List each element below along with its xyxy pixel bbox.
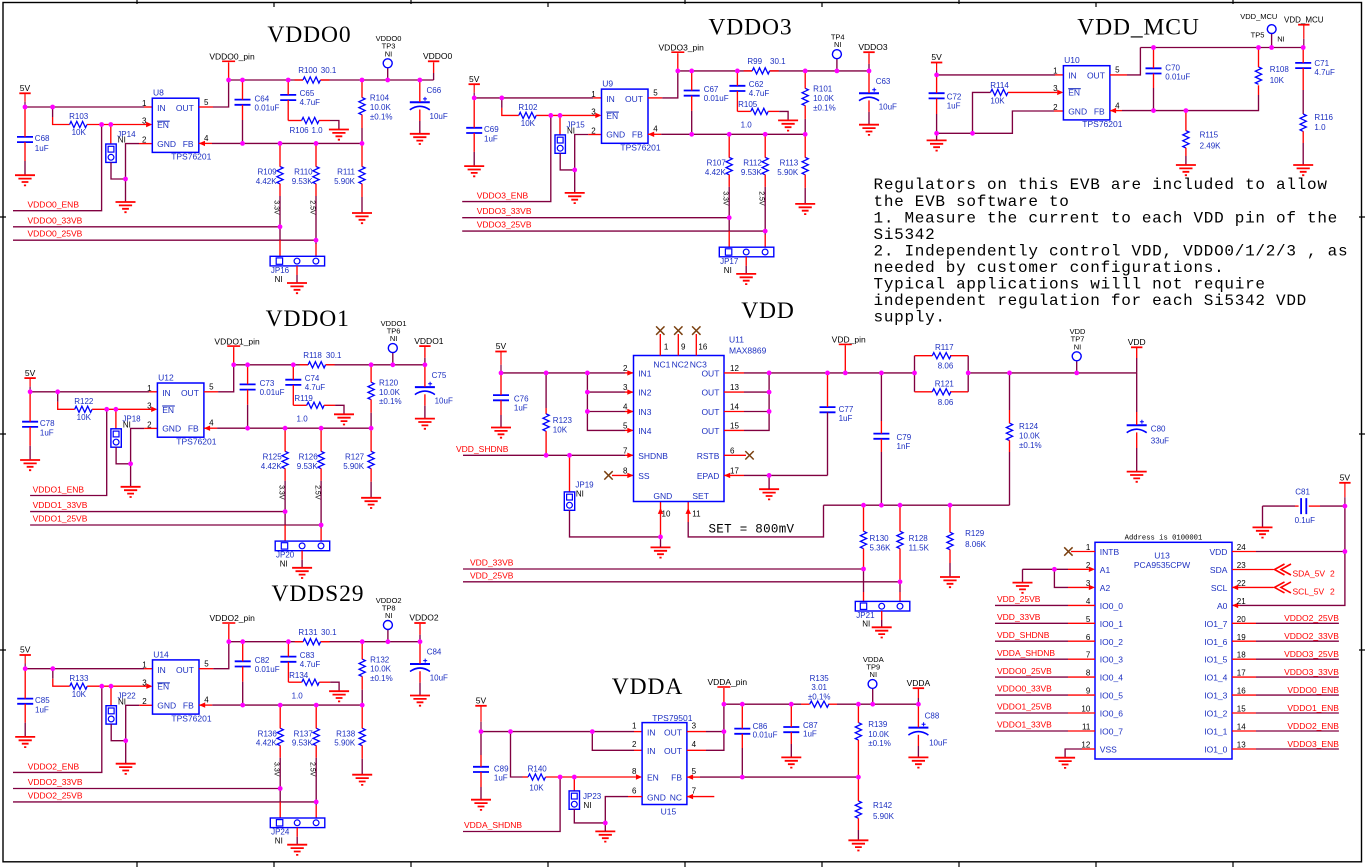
net label VDDO3_33VB — [477, 206, 532, 216]
wire C76 to ground — [500, 415, 502, 427]
junction — [314, 238, 319, 243]
svg-text:NI: NI — [834, 40, 842, 49]
resistor R136 4.42K — [256, 728, 283, 748]
wire 5V to IN pin — [30, 391, 149, 393]
regulator U12 TPS76201 — [147, 372, 217, 446]
capacitor C76 1uF — [493, 395, 529, 413]
wire VDD net — [1256, 551, 1345, 553]
capacitor C74 4.7uF — [285, 374, 325, 392]
svg-text:C66: C66 — [427, 86, 442, 95]
wire jumper mid to ground — [296, 837, 298, 845]
svg-text:2. Independently control VDD,: 2. Independently control VDD, VDDO0/1/2/… — [874, 242, 1349, 260]
svg-text:C85: C85 — [35, 696, 50, 705]
resistor R137 9.53K — [292, 728, 319, 748]
svg-text:9.53K: 9.53K — [292, 177, 314, 186]
wire C88 bottom red — [917, 735, 919, 746]
wire parallel right post — [967, 356, 969, 392]
svg-text:4.7uF: 4.7uF — [305, 383, 326, 392]
wire TP9 stub — [872, 688, 874, 704]
resistor R107 4.42K — [705, 157, 732, 177]
wire C84 to ground — [419, 683, 421, 696]
wire flag red stem — [433, 62, 435, 73]
wire C87 bottom red — [790, 732, 792, 744]
resistor R120 10.0K — [368, 378, 402, 406]
junction — [423, 362, 428, 367]
wire GND pin stub — [144, 427, 157, 429]
wire OUT12 stub — [724, 372, 744, 374]
wire rail right of parallel pair — [968, 372, 1136, 374]
wire VDDA rail left — [724, 703, 801, 705]
jumper JP17 NI — [719, 247, 774, 275]
wire test point stub — [387, 68, 389, 80]
wire VDDA rail right — [837, 703, 918, 705]
net label VDD_25VB — [997, 594, 1041, 604]
svg-text:22: 22 — [1237, 579, 1246, 588]
svg-text:VDD_pin: VDD_pin — [832, 335, 866, 345]
power flag VDD_MCU — [1284, 15, 1324, 47]
resistor R115 2.49K — [1183, 130, 1221, 150]
svg-text:VDDO3: VDDO3 — [708, 15, 792, 41]
svg-text:0.01uF: 0.01uF — [1165, 72, 1190, 81]
svg-text:TPS76201: TPS76201 — [171, 152, 211, 162]
wire C72 to bottom rail — [936, 114, 938, 133]
wire resistor right lead to EN — [87, 685, 147, 687]
wire A1 net — [1023, 568, 1069, 570]
junction — [879, 503, 884, 508]
junction — [499, 96, 504, 101]
wire R142 top lead — [857, 777, 859, 801]
section title VDDS29 — [272, 581, 365, 607]
svg-text:U11: U11 — [729, 335, 744, 345]
wire rb jumper red — [320, 529, 322, 541]
pin arrow FB — [1110, 108, 1116, 113]
wire C83 top lead — [287, 642, 289, 657]
svg-text:R110: R110 — [294, 168, 313, 177]
junction — [1074, 371, 1079, 376]
wire EPAD gnd stem — [768, 475, 770, 489]
wire SS stub — [612, 474, 634, 476]
wire C85 bottom lead — [24, 704, 26, 723]
svg-text:R101: R101 — [813, 85, 833, 94]
svg-text:3: 3 — [142, 678, 147, 687]
wire output rail left — [229, 641, 303, 643]
svg-text:OUT: OUT — [176, 665, 194, 675]
power flag 5V — [931, 52, 942, 75]
svg-text:IN1: IN1 — [638, 368, 652, 378]
wire jumper mid to ground — [301, 560, 303, 568]
pin arrow EN — [151, 407, 157, 412]
wire VDD_33VB net — [995, 622, 1068, 624]
svg-text:10uF: 10uF — [430, 112, 448, 121]
svg-text:1: 1 — [142, 99, 147, 108]
svg-text:IO1_1: IO1_1 — [1204, 727, 1227, 737]
svg-text:IO1_7: IO1_7 — [1204, 619, 1227, 629]
capacitor C62 4.7uF — [729, 80, 769, 98]
svg-text:C76: C76 — [514, 395, 529, 404]
svg-text:9.53K: 9.53K — [297, 462, 319, 471]
wire R124 top red — [1009, 410, 1011, 423]
label 3.3V — [273, 762, 280, 777]
wire FB stub — [648, 133, 661, 135]
svg-text:4: 4 — [1086, 597, 1091, 606]
wire rs right lead — [319, 681, 330, 683]
wire JP21 mid red — [881, 611, 883, 620]
resistor R114 10K — [990, 81, 1009, 105]
wire C80 top red — [1136, 412, 1138, 425]
svg-text:3.3V: 3.3V — [722, 191, 729, 206]
wire rb bottom red — [315, 184, 317, 196]
wire R101 bottom red — [804, 106, 806, 119]
svg-text:1.0: 1.0 — [297, 414, 309, 423]
junction — [278, 703, 283, 708]
pin arrow FB — [648, 132, 654, 137]
svg-text:1uF: 1uF — [803, 729, 817, 738]
resistor R103 10K — [69, 112, 89, 137]
wire C66 top lead — [419, 80, 421, 102]
svg-text:R126: R126 — [299, 452, 319, 461]
svg-text:10.0K: 10.0K — [1019, 431, 1041, 440]
svg-text:IO0_3: IO0_3 — [1100, 655, 1123, 665]
capacitor C77 1uF — [820, 405, 854, 423]
wire R115 top lead — [1185, 111, 1187, 131]
wire rc to ground — [361, 759, 363, 775]
wire resistor left lead — [502, 108, 519, 116]
junction — [240, 639, 245, 644]
wire ra to jumper — [279, 196, 281, 240]
wire flag stem — [424, 358, 426, 365]
junction — [803, 132, 808, 137]
junction — [585, 390, 590, 395]
svg-text:2.5V: 2.5V — [309, 762, 316, 777]
wire VDDO3_ENB stub — [1232, 748, 1256, 750]
svg-text:C68: C68 — [35, 134, 50, 143]
net label VDDA_SHDNB — [464, 820, 522, 830]
jumper JP21 NI — [855, 601, 910, 628]
junction — [50, 105, 55, 110]
svg-text:5: 5 — [1115, 65, 1120, 74]
wire VDD_33VB stub — [1068, 622, 1095, 624]
ground — [116, 764, 136, 774]
wire C66 to ground — [419, 121, 421, 134]
ground — [1176, 165, 1196, 175]
ground — [795, 204, 815, 214]
wire test point stub — [387, 630, 389, 642]
junction — [508, 729, 513, 734]
wire VDDS29 ENB riser — [13, 686, 102, 772]
ground — [1013, 583, 1033, 593]
junction — [722, 702, 727, 707]
svg-text:Regulators on this EVB are inc: Regulators on this EVB are included to a… — [874, 176, 1328, 194]
net label VDD_33VB — [997, 612, 1041, 622]
svg-text:Si5342: Si5342 — [874, 226, 936, 244]
wire C81 net — [1263, 505, 1296, 507]
wire top rail — [1140, 47, 1303, 49]
junction — [544, 453, 549, 458]
capacitor C86 0.01uF — [734, 722, 777, 739]
net label VDDO3_25VB — [477, 220, 532, 230]
junction — [245, 362, 250, 367]
wire C64 bottom red — [242, 105, 244, 120]
junction — [286, 639, 291, 644]
test point TP6 NI — [381, 319, 407, 353]
svg-text:±0.1%: ±0.1% — [808, 692, 831, 701]
svg-text:GND: GND — [157, 139, 176, 149]
svg-text:10uF: 10uF — [879, 103, 897, 112]
svg-text:0.01uF: 0.01uF — [753, 731, 778, 740]
svg-text:2: 2 — [142, 136, 147, 145]
svg-text:R113: R113 — [780, 159, 799, 168]
svg-text:C71: C71 — [1314, 59, 1329, 68]
svg-text:5V: 5V — [1340, 473, 1351, 483]
svg-text:2: 2 — [591, 126, 596, 135]
wire VDDO2_25VB net — [1256, 622, 1339, 624]
svg-text:JP19: JP19 — [575, 480, 594, 489]
resistor R135 3.01 — [808, 674, 831, 707]
wire C72 bottom lead — [936, 98, 938, 114]
junction — [722, 729, 727, 734]
wire OUT14 tap — [744, 411, 769, 413]
resistor R102 10K — [518, 103, 538, 128]
junction — [123, 177, 128, 182]
wire ra bottom red — [279, 184, 281, 196]
resistor R122 10K — [74, 397, 94, 422]
capacitor C75 10uF — [415, 371, 453, 406]
power flag VDDO3 — [858, 42, 888, 52]
wire output rail right — [326, 364, 425, 366]
jumper JP24 NI — [270, 818, 325, 846]
svg-text:OUT: OUT — [664, 727, 682, 737]
svg-text:R124: R124 — [1019, 422, 1039, 431]
wire IN3 tap — [587, 411, 625, 413]
svg-text:VDDA: VDDA — [612, 674, 683, 700]
svg-text:C79: C79 — [897, 433, 912, 442]
svg-text:5.90K: 5.90K — [873, 812, 895, 821]
net label VDDO3_ENB — [477, 191, 529, 201]
svg-text:OUT: OUT — [664, 746, 682, 756]
wire jumper riser — [110, 125, 112, 145]
wire A2 route — [1054, 569, 1068, 587]
wire C69 bottom lead — [473, 133, 475, 152]
wire GND pin riser — [660, 502, 662, 537]
power flag VDD — [1128, 337, 1146, 347]
svg-text:VDDO1_25VB: VDDO1_25VB — [33, 514, 88, 524]
svg-text:U12: U12 — [158, 372, 174, 382]
svg-text:R118: R118 — [303, 351, 322, 360]
junction — [572, 168, 577, 173]
pin arrow NC — [687, 794, 693, 799]
wire flag stem — [419, 635, 421, 642]
svg-text:C83: C83 — [300, 651, 315, 660]
wire VDDA_pin stem — [723, 688, 725, 704]
wire output rail left — [234, 364, 308, 366]
svg-text:23: 23 — [1237, 561, 1246, 570]
junction — [934, 73, 939, 78]
wire rail red at R right — [326, 364, 335, 366]
label SET = 800mV — [709, 523, 795, 537]
svg-text:1: 1 — [664, 343, 669, 352]
svg-text:3: 3 — [142, 117, 147, 126]
capacitor C79 1nF — [873, 433, 911, 451]
wire C73 bottom red — [247, 390, 249, 405]
wire rs right lead — [768, 110, 779, 112]
wire R128 top lead — [899, 505, 901, 531]
svg-text:GND: GND — [653, 491, 672, 501]
svg-text:IO0_0: IO0_0 — [1100, 601, 1123, 611]
wire R107 top lead — [728, 134, 730, 157]
wire IN2 stub — [634, 749, 642, 751]
junction — [590, 729, 595, 734]
svg-text:3: 3 — [591, 108, 596, 117]
svg-text:5: 5 — [204, 98, 209, 107]
junction — [572, 775, 577, 780]
wire GND pin stub — [139, 143, 152, 145]
svg-text:6: 6 — [1086, 633, 1091, 642]
svg-text:13: 13 — [1237, 741, 1246, 750]
ground — [116, 202, 136, 212]
wire R117 right red — [950, 355, 968, 357]
svg-text:VDDO2_ENB: VDDO2_ENB — [28, 761, 80, 771]
svg-text:VDDO1: VDDO1 — [414, 336, 444, 346]
wire C80 to ground — [1136, 448, 1138, 471]
svg-text:GND: GND — [157, 701, 176, 711]
svg-text:SS: SS — [638, 471, 650, 481]
capacitor C63 10uF — [859, 77, 897, 112]
wire C85 to ground — [24, 723, 26, 737]
svg-text:Address is 0100001: Address is 0100001 — [1125, 535, 1203, 543]
svg-text:supply.: supply. — [874, 309, 946, 327]
wire C69 to ground — [473, 152, 475, 166]
pin arrow EN — [636, 774, 642, 779]
wire VDDO3_33VB net line — [462, 217, 729, 219]
svg-text:FB: FB — [632, 130, 643, 140]
junction — [417, 78, 422, 83]
svg-text:MAX8869: MAX8869 — [729, 345, 767, 355]
junction — [689, 132, 694, 137]
jumper JP16 NI — [270, 256, 325, 284]
wire OUT12 to rail — [744, 372, 915, 374]
wire jumper mid to ground — [745, 266, 747, 274]
wire C84 top lead — [419, 642, 421, 664]
wire GND pin stub — [139, 704, 152, 706]
svg-text:R108: R108 — [1270, 65, 1290, 74]
svg-text:1.0: 1.0 — [292, 691, 304, 700]
svg-text:1.0: 1.0 — [312, 126, 324, 135]
wire C67 to FB rail — [691, 111, 693, 134]
junction — [948, 503, 953, 508]
svg-text:VDDO1_33VB: VDDO1_33VB — [33, 500, 88, 510]
junction — [861, 567, 866, 572]
wire IN3 stub — [625, 411, 634, 413]
wire SET trace — [688, 505, 823, 537]
svg-text:5.90K: 5.90K — [334, 739, 356, 748]
net label VDDO1_33VB — [33, 500, 88, 510]
junction — [385, 78, 390, 83]
svg-text:R114: R114 — [990, 81, 1009, 90]
svg-text:FB: FB — [1094, 106, 1105, 116]
svg-text:1.0: 1.0 — [741, 121, 753, 130]
svg-text:C72: C72 — [947, 93, 962, 102]
svg-text:7: 7 — [1086, 651, 1091, 660]
junction — [50, 666, 55, 671]
svg-text:3: 3 — [623, 383, 628, 392]
wire C77 bottom to EPAD — [827, 412, 829, 475]
wire VDDO3_25VB net line — [462, 230, 765, 232]
wire rb to jumper — [315, 758, 317, 806]
offpage chevron SCL — [1275, 582, 1292, 593]
resistor R104 10.0K — [359, 94, 393, 122]
svg-text:IO0_7: IO0_7 — [1100, 727, 1123, 737]
junction — [99, 684, 104, 689]
wire rc bottom red — [370, 469, 372, 482]
svg-text:VDDO2_pin: VDDO2_pin — [210, 613, 256, 623]
svg-text:IO0_6: IO0_6 — [1100, 709, 1123, 719]
wire SDA wire — [1232, 569, 1274, 571]
wire rb to jumper — [315, 196, 317, 244]
label 3.3V — [273, 200, 280, 215]
wire R121 right red — [950, 391, 968, 393]
junction — [727, 215, 732, 220]
wire VDDO0_pin stub — [228, 62, 230, 80]
wire VDDO0_33VB net line — [13, 226, 280, 228]
wire R123 top red — [545, 408, 547, 414]
svg-text:NI: NI — [385, 611, 393, 620]
wire R138 top lead — [361, 705, 363, 728]
wire jumper mid red — [296, 828, 298, 837]
junction — [23, 666, 28, 671]
junction — [240, 141, 245, 146]
svg-text:5: 5 — [204, 660, 209, 669]
svg-text:2.5V: 2.5V — [309, 200, 316, 215]
wire VDDO0_25VB net line — [13, 239, 316, 241]
junction — [109, 684, 114, 689]
svg-text:R121: R121 — [935, 379, 955, 388]
svg-text:VDDO0_pin: VDDO0_pin — [209, 52, 255, 62]
svg-text:30.1: 30.1 — [321, 66, 337, 75]
wire GND pin to ground — [131, 428, 145, 486]
pin arrow FB — [199, 702, 205, 707]
wire flag stem — [868, 64, 870, 71]
wire rail red at R right — [321, 641, 330, 643]
wire bottom rail — [937, 111, 1054, 133]
wire FB rail — [1122, 95, 1259, 111]
svg-text:R103: R103 — [69, 112, 89, 121]
pin arrow SHDNB — [627, 453, 633, 458]
wire C77 top lead — [827, 373, 829, 407]
wire JP19 bottom to gnd line — [570, 510, 661, 537]
net label VDDO3_33VB — [1284, 667, 1339, 677]
wire jumper bottom to gnd net — [560, 153, 575, 170]
svg-text:OUT: OUT — [625, 94, 643, 104]
svg-text:10.0K: 10.0K — [370, 665, 392, 674]
junction — [128, 461, 133, 466]
svg-text:10uF: 10uF — [435, 397, 453, 406]
svg-text:±0.1%: ±0.1% — [370, 674, 393, 683]
svg-text:VDD_SHDNB: VDD_SHDNB — [456, 444, 509, 454]
wire C65 top lead — [287, 80, 289, 95]
junction — [767, 371, 772, 376]
junction — [548, 113, 553, 118]
svg-text:IN: IN — [647, 746, 656, 756]
wire R140 right red — [546, 776, 636, 778]
junction — [369, 426, 374, 431]
svg-text:VDD_MCU: VDD_MCU — [1284, 15, 1324, 24]
net label VDDO1_ENB — [33, 485, 85, 495]
svg-text:2: 2 — [623, 364, 628, 373]
junction — [291, 362, 296, 367]
svg-text:R136: R136 — [258, 729, 278, 738]
ground — [565, 193, 585, 203]
svg-text:2: 2 — [147, 420, 152, 429]
